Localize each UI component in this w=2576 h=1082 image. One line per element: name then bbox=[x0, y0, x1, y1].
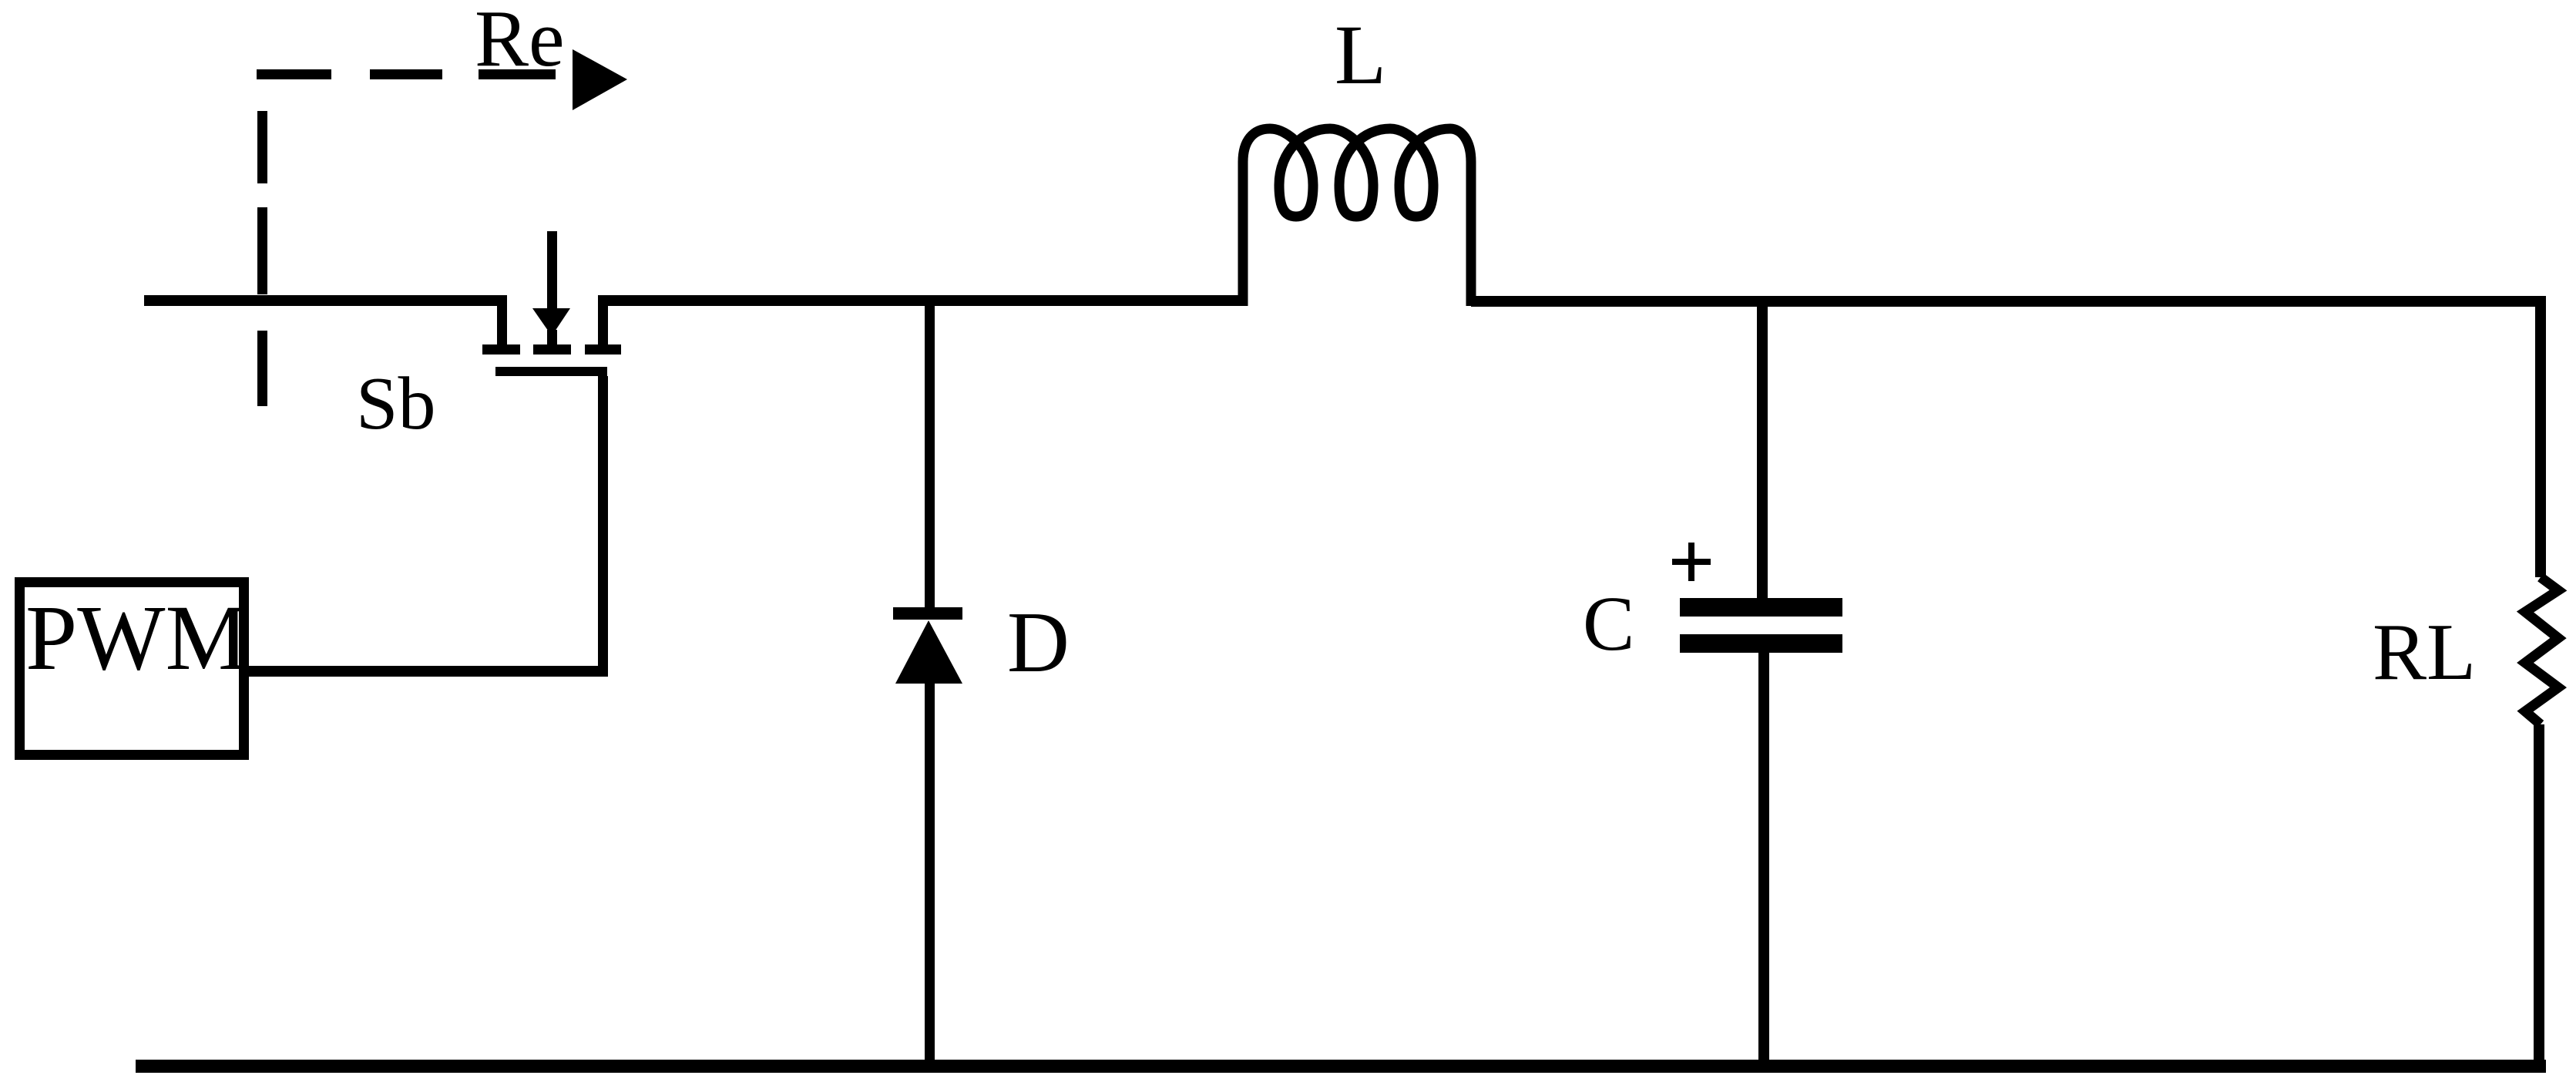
wire dashed vertical dash 3 bbox=[257, 331, 267, 406]
wire resistor RL bottom lead bbox=[2534, 724, 2544, 1066]
transistor Q1 Sb source stub bbox=[598, 295, 608, 344]
diode D triangle bbox=[895, 620, 962, 684]
transistor Q1 Sb drain stub bbox=[497, 295, 507, 344]
diode D cathode bar bbox=[893, 607, 962, 620]
svg-text:L: L bbox=[1335, 8, 1386, 102]
wire gate down to PWM wire bbox=[598, 376, 608, 677]
wire dashed vertical dash 2 bbox=[257, 207, 267, 294]
capacitor C top plate bbox=[1680, 598, 1842, 617]
capacitor C plus sign vertical bbox=[1688, 543, 1694, 581]
svg-text:PWM: PWM bbox=[25, 586, 248, 690]
PWM block U1 box bbox=[20, 583, 244, 755]
inductor L coil bbox=[1243, 129, 1471, 306]
wire dashed horizontal Re current path dash 3 bbox=[479, 69, 556, 79]
wire diode D anode down to bottom rail bbox=[925, 684, 935, 1066]
svg-text:RL: RL bbox=[2373, 607, 2476, 697]
wire ground bottom rail bbox=[136, 1060, 2546, 1073]
wire dashed horizontal Re current path dash 2 bbox=[370, 69, 442, 79]
resistor RL zigzag bbox=[2525, 577, 2558, 724]
capacitor C bottom plate bbox=[1680, 634, 1842, 653]
wire diode D cathode up to top rail bbox=[925, 301, 935, 607]
transistor Q1 Sb source terminal bar bbox=[585, 344, 621, 355]
svg-text:Sb: Sb bbox=[356, 362, 436, 445]
transistor Q1 Sb body arrow stub bbox=[547, 330, 557, 344]
capacitor C plus sign horizontal bbox=[1672, 559, 1711, 565]
transistor Q1 Sb body arrow shaft bbox=[547, 231, 557, 314]
svg-text:Re: Re bbox=[475, 0, 565, 83]
wire transistor source to inductor (through diode node) bbox=[598, 295, 1248, 306]
transistor Q1 Sb drain terminal bar bbox=[482, 344, 520, 355]
wire PWM output to gate bbox=[246, 666, 608, 677]
wire dashed horizontal Re current path dash 1 bbox=[257, 69, 331, 79]
wire dashed vertical dash 1 bbox=[257, 111, 267, 183]
node Re arrow head bbox=[573, 49, 627, 110]
svg-text:C: C bbox=[1583, 580, 1634, 667]
transistor Q1 Sb body arrow head bbox=[532, 308, 570, 336]
wire capacitor C bottom lead to ground rail bbox=[1758, 653, 1769, 1066]
wire capacitor C top lead bbox=[1757, 301, 1768, 598]
transistor Q1 Sb gate bar bbox=[495, 367, 607, 376]
wire inductor to output node and right rail bbox=[1471, 296, 2546, 307]
wire right rail down to resistor RL bbox=[2535, 296, 2546, 577]
wire input top left to transistor Sb drain bbox=[144, 295, 506, 306]
svg-text:D: D bbox=[1007, 595, 1070, 691]
transistor Q1 Sb body terminal bar bbox=[533, 344, 571, 355]
